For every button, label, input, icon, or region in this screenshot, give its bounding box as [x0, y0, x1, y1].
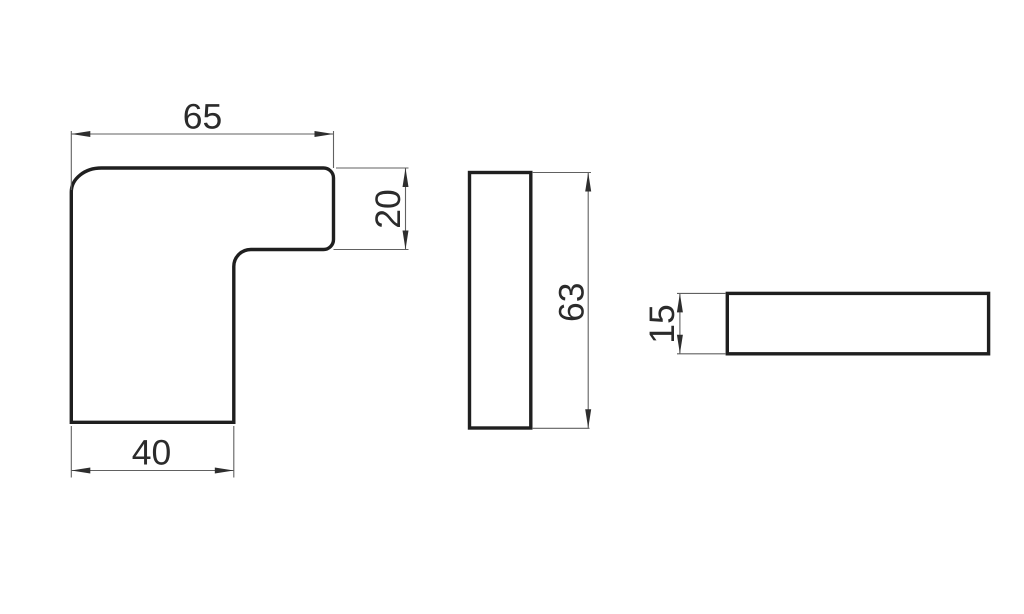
dimension 15: extension line bottom [677, 353, 726, 355]
dimension 65: extension line left [70, 131, 72, 190]
dimension 20: dimension line [405, 168, 407, 250]
dimension 40: dimension line [71, 470, 234, 472]
svg-text:40: 40 [132, 433, 172, 473]
svg-text:65: 65 [183, 97, 223, 137]
side view: rectangle outline [470, 173, 531, 429]
dimension 63: arrowhead top [585, 173, 591, 192]
dimension 15: arrowhead bottom [677, 335, 683, 354]
dimension 65: arrowhead left [71, 131, 90, 137]
dimension 20: arrowhead bottom [403, 231, 409, 250]
top view: rectangle outline [727, 293, 988, 353]
front view: L-shaped part outline [71, 168, 333, 422]
dimension 65: extension line right [333, 131, 335, 168]
dimension 20: extension line bottom [334, 249, 409, 251]
dimension 63: extension line bottom [532, 427, 590, 429]
dimension 15: dimension line [679, 293, 681, 353]
dimension 15: extension line top [677, 292, 726, 294]
dimension 63: arrowhead bottom [585, 409, 591, 428]
svg-text:63: 63 [552, 283, 592, 323]
dimension 40: extension line left [70, 426, 72, 478]
dimension 65: dimension line [71, 133, 333, 135]
dimension 40: extension line right [233, 426, 235, 478]
dimension 40: arrowhead left [71, 468, 90, 474]
svg-text:20: 20 [368, 189, 408, 229]
dimension 15: arrowhead top [677, 293, 683, 312]
dimension 20: arrowhead top [403, 168, 409, 187]
dimension 40: arrowhead right [215, 468, 234, 474]
dimension 20: extension line top [336, 167, 409, 169]
dimension 63: dimension line [587, 173, 589, 429]
svg-text:15: 15 [642, 304, 682, 344]
dimension 63: extension line top [532, 172, 591, 174]
dimension 65: arrowhead right [315, 131, 334, 137]
